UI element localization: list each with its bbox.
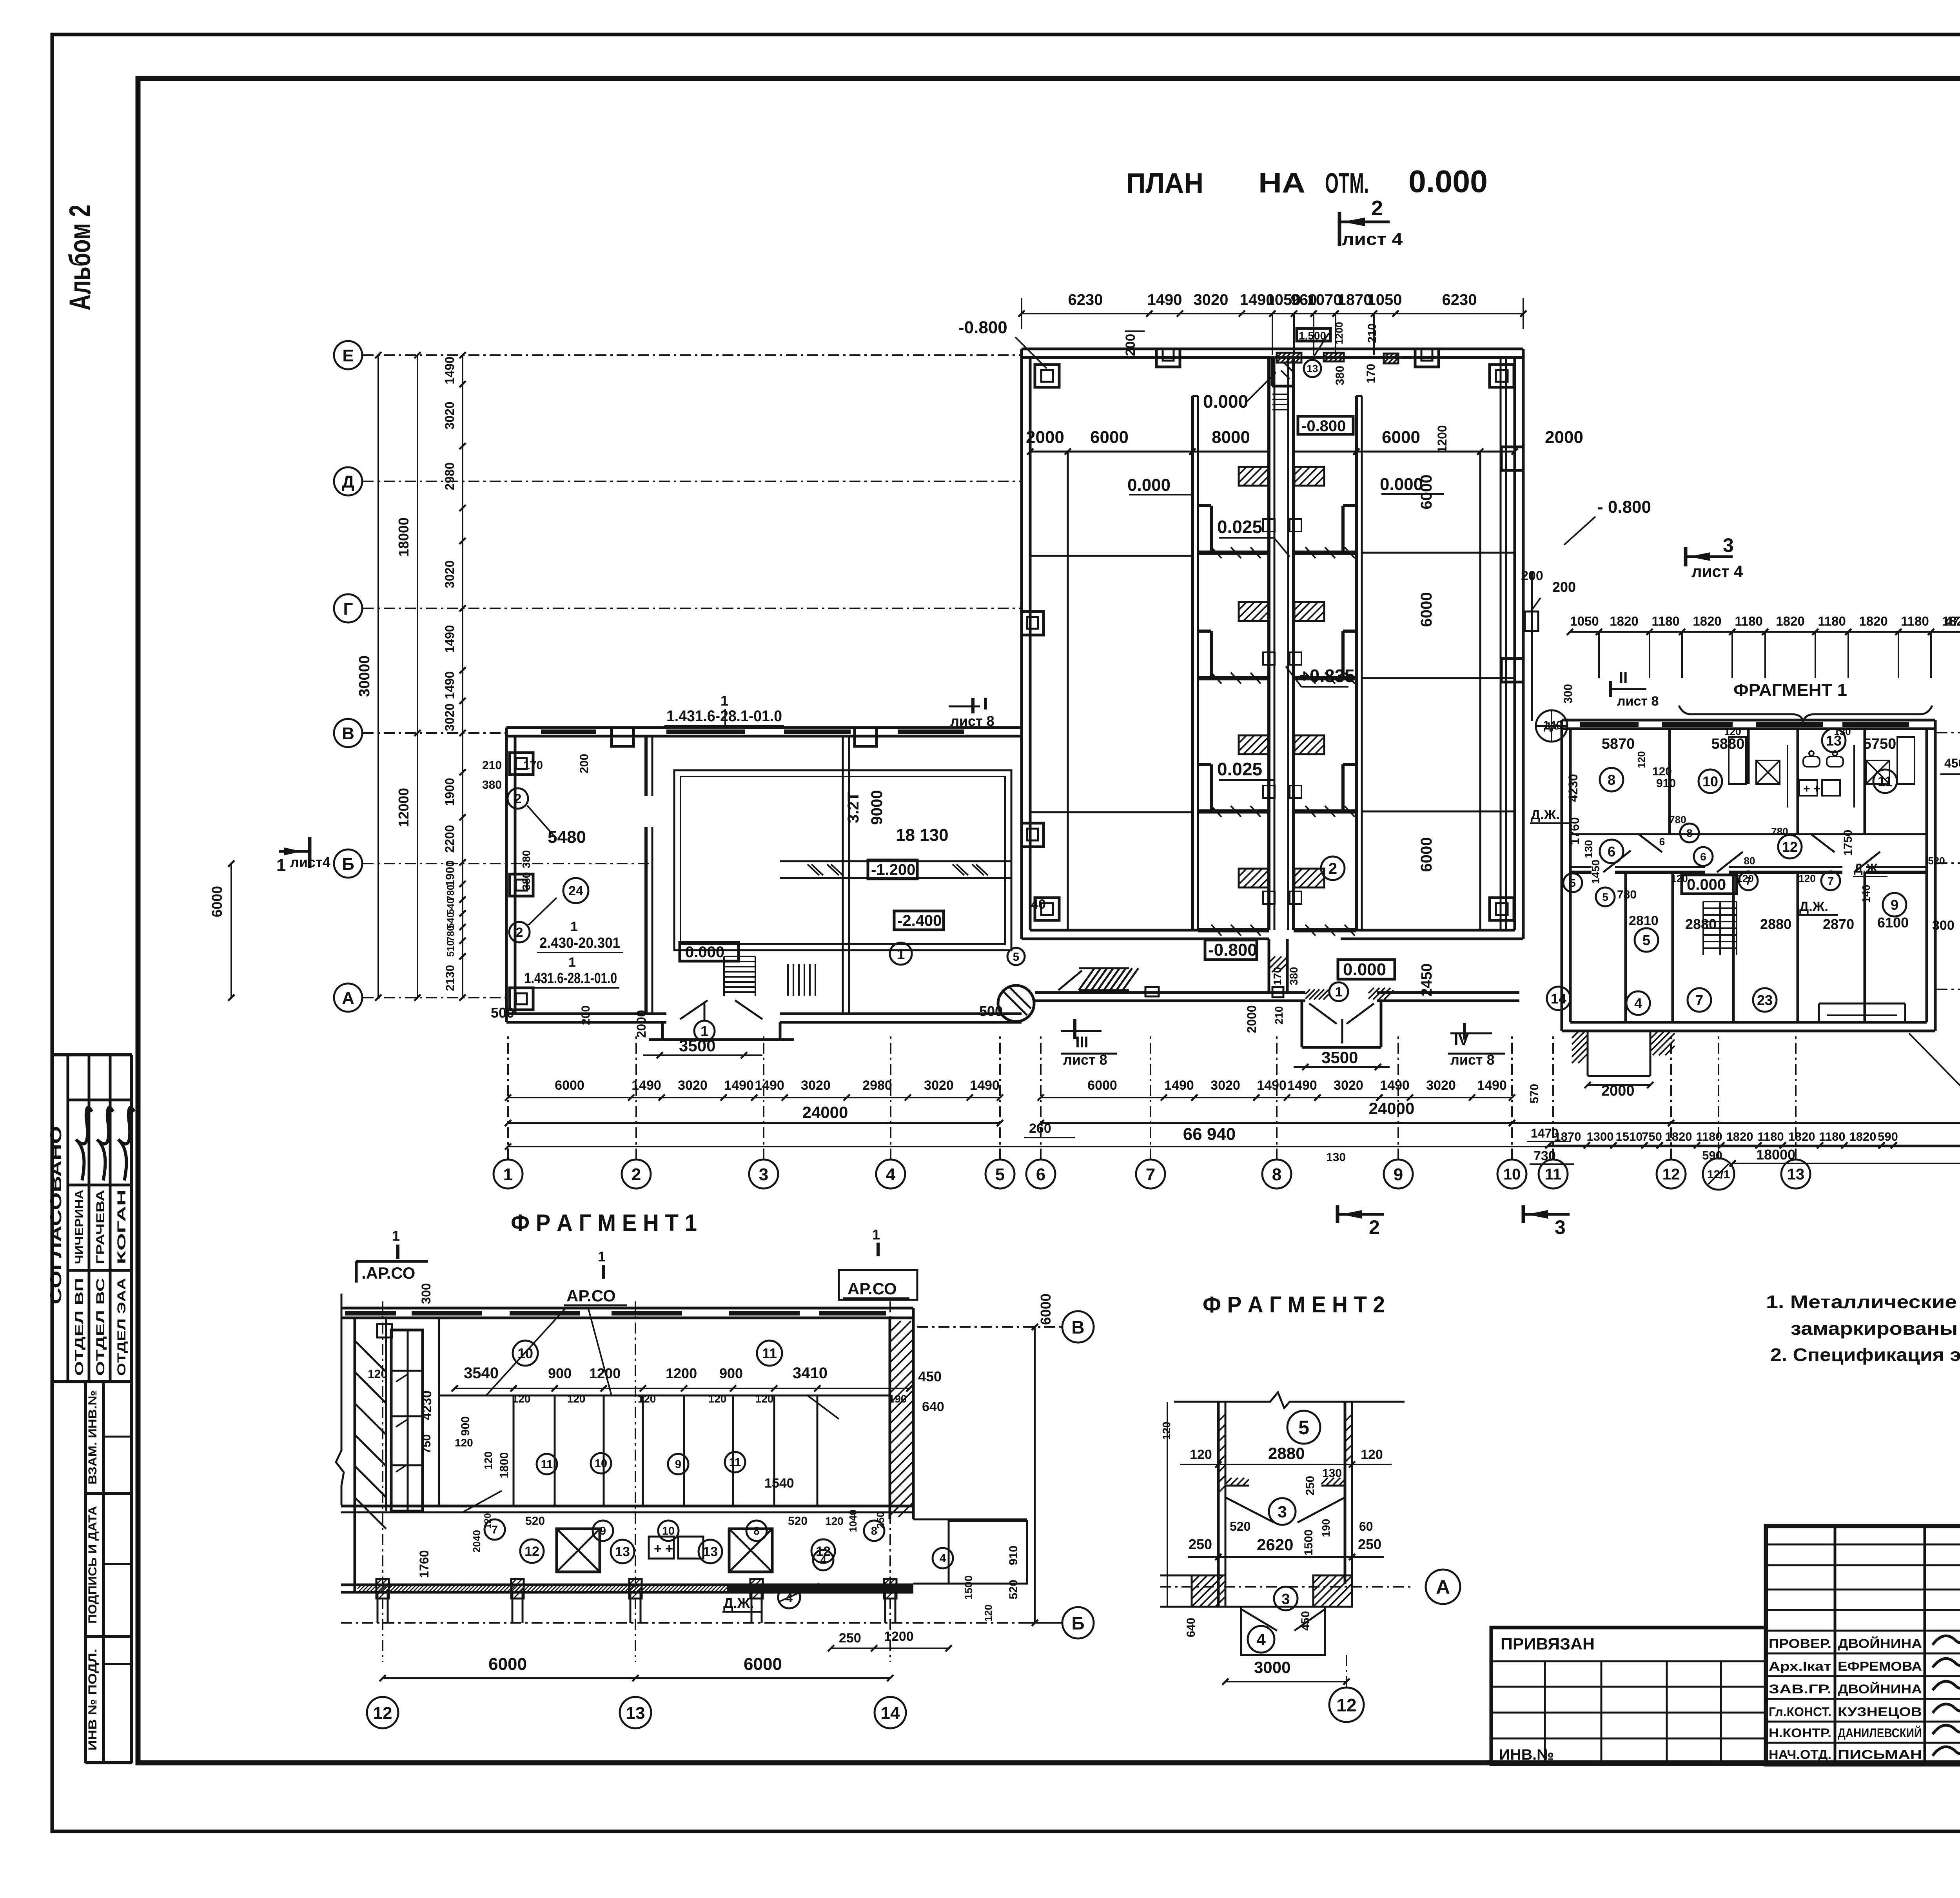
stairs hatch in link corridor xyxy=(1079,968,1094,990)
svg-text:лист 8: лист 8 xyxy=(1617,694,1659,709)
svg-text:2450: 2450 xyxy=(1419,964,1435,997)
svg-text:-0.800: -0.800 xyxy=(958,318,1007,337)
lower link corridor south wall xyxy=(1035,991,1305,994)
svg-text:5750: 5750 xyxy=(1863,736,1896,752)
left dim 30000 xyxy=(377,355,379,998)
central hall wall piers xyxy=(1035,365,1059,387)
svg-text:3020: 3020 xyxy=(924,1078,954,1093)
svg-text:6000: 6000 xyxy=(1418,475,1435,510)
svg-text:5: 5 xyxy=(995,1165,1005,1184)
svg-text:120: 120 xyxy=(1724,726,1741,737)
svg-text:1050: 1050 xyxy=(1570,614,1599,628)
svg-text:1: 1 xyxy=(872,1227,880,1243)
svg-text:1490: 1490 xyxy=(1477,1078,1507,1093)
svg-text:1200: 1200 xyxy=(666,1365,697,1381)
right wing outer walls xyxy=(1562,719,1935,722)
svg-text:+ +: + + xyxy=(1803,782,1820,795)
svg-text:24000: 24000 xyxy=(802,1103,848,1121)
section mark IV лист8 xyxy=(1463,1023,1466,1040)
svg-text:170: 170 xyxy=(1365,364,1377,383)
svg-text:470: 470 xyxy=(1945,614,1960,628)
svg-text:2810: 2810 xyxy=(1629,913,1659,928)
svg-text:НАЧ.ОТД.: НАЧ.ОТД. xyxy=(1769,1747,1831,1762)
svg-text:0.000: 0.000 xyxy=(1380,475,1423,494)
svg-text:2980: 2980 xyxy=(443,462,457,490)
svg-text:24: 24 xyxy=(568,884,583,898)
svg-text:2880: 2880 xyxy=(1760,916,1791,932)
svg-text:1180: 1180 xyxy=(1651,614,1680,628)
svg-text:5: 5 xyxy=(1570,877,1576,889)
svg-text:Е: Е xyxy=(342,346,354,365)
svg-text:250: 250 xyxy=(1358,1536,1381,1552)
svg-text:2: 2 xyxy=(516,925,523,940)
svg-text:120: 120 xyxy=(1635,751,1647,768)
svg-text:ДВОЙНИНА: ДВОЙНИНА xyxy=(1838,1682,1922,1696)
svg-text:1800: 1800 xyxy=(498,1452,511,1479)
svg-text:640: 640 xyxy=(922,1399,944,1414)
svg-text:6000: 6000 xyxy=(744,1655,782,1674)
svg-text:120: 120 xyxy=(982,1604,994,1621)
svg-text:6000: 6000 xyxy=(209,886,225,917)
svg-text:2: 2 xyxy=(632,1165,641,1184)
platform bands beside corridor xyxy=(1198,551,1269,555)
svg-text:КУЗНЕЦОВ: КУЗНЕЦОВ xyxy=(1838,1705,1922,1719)
svg-text:3: 3 xyxy=(1281,1591,1290,1608)
svg-text:8: 8 xyxy=(1272,1165,1281,1184)
title block small grid columns xyxy=(1834,1526,1837,1764)
svg-text:2980: 2980 xyxy=(862,1078,892,1093)
svg-text:1.431.6-28.1-01.0: 1.431.6-28.1-01.0 xyxy=(666,708,782,725)
svg-text:190: 190 xyxy=(1320,1519,1332,1537)
svg-text:лист 4: лист 4 xyxy=(1691,562,1743,581)
section mark 2 / лист 4 under title xyxy=(1338,212,1341,246)
svg-text:1820: 1820 xyxy=(1610,614,1638,628)
svg-text:250: 250 xyxy=(875,1512,886,1528)
svg-text:500: 500 xyxy=(491,1005,514,1021)
fragment1 interior walls xyxy=(438,1318,440,1505)
svg-text:4: 4 xyxy=(820,1554,826,1567)
svg-text:1: 1 xyxy=(897,946,905,963)
svg-text:18000: 18000 xyxy=(1756,1147,1795,1163)
svg-text:1180: 1180 xyxy=(1735,614,1763,628)
Д,е bubble xyxy=(1536,710,1567,742)
svg-text:2200: 2200 xyxy=(443,825,457,853)
svg-text:2000: 2000 xyxy=(1245,1005,1259,1033)
svg-text:1: 1 xyxy=(570,919,578,934)
corridor stub to south wall xyxy=(1268,939,1270,993)
svg-text:910: 910 xyxy=(1007,1546,1020,1565)
svg-text:5: 5 xyxy=(1298,1417,1309,1439)
svg-text:0.025: 0.025 xyxy=(1217,517,1262,537)
svg-text:3: 3 xyxy=(759,1165,768,1184)
svg-text:900: 900 xyxy=(548,1365,572,1381)
svg-text:4: 4 xyxy=(886,1165,896,1184)
svg-text:СОГЛАСОВАНО: СОГЛАСОВАНО xyxy=(47,1126,65,1305)
svg-text:14: 14 xyxy=(881,1704,900,1723)
interior dim row 2000/6000/8000/6000/2000 xyxy=(1030,451,1269,453)
svg-text:1180: 1180 xyxy=(1901,614,1929,628)
svg-text:ПИСЬМАН: ПИСЬМАН xyxy=(1838,1747,1922,1762)
svg-text:Д.Ж.: Д.Ж. xyxy=(1531,807,1560,822)
svg-text:13: 13 xyxy=(1787,1166,1805,1183)
svg-text:10: 10 xyxy=(595,1457,607,1470)
svg-text:1: 1 xyxy=(568,955,576,970)
right wing partitions upper xyxy=(1668,729,1671,834)
right wing partitions lower xyxy=(1624,872,1627,1022)
svg-text:120: 120 xyxy=(482,1452,494,1470)
svg-text:1760: 1760 xyxy=(417,1550,431,1578)
svg-text:1820: 1820 xyxy=(1849,1130,1877,1143)
svg-text:- 0.800: - 0.800 xyxy=(1597,497,1651,517)
svg-text:210: 210 xyxy=(482,759,502,772)
svg-text:120: 120 xyxy=(638,1393,656,1405)
svg-text:0.000: 0.000 xyxy=(1687,876,1726,893)
svg-text:9: 9 xyxy=(675,1458,681,1471)
svg-text:Д: Д xyxy=(342,472,354,492)
left dim 18000/12000 xyxy=(417,355,418,998)
svg-text:АР.СО: АР.СО xyxy=(566,1287,616,1305)
svg-text:7: 7 xyxy=(1695,992,1703,1008)
svg-text:3500: 3500 xyxy=(1321,1048,1358,1067)
svg-text:570: 570 xyxy=(1528,1084,1541,1103)
svg-text:5: 5 xyxy=(1642,932,1650,948)
top dimension string of central building xyxy=(1022,313,1523,314)
svg-text:Арх.Iкат: Арх.Iкат xyxy=(1769,1659,1831,1673)
svg-text:60: 60 xyxy=(1359,1519,1373,1533)
svg-text:10: 10 xyxy=(1503,1166,1521,1183)
svg-text:190: 190 xyxy=(889,1393,907,1405)
svg-text:520: 520 xyxy=(788,1515,808,1528)
svg-text:120: 120 xyxy=(825,1515,844,1527)
svg-text:1: 1 xyxy=(276,856,286,875)
svg-text:120: 120 xyxy=(567,1393,586,1405)
svg-text:1200: 1200 xyxy=(1333,322,1345,345)
svg-text:0.000: 0.000 xyxy=(685,944,724,961)
basement stair bottom center of hall xyxy=(787,964,789,996)
svg-text:6000: 6000 xyxy=(1038,1294,1054,1325)
fragment1 room circles xyxy=(513,1341,538,1366)
svg-text:1490: 1490 xyxy=(1164,1078,1194,1093)
svg-text:520: 520 xyxy=(1007,1580,1020,1599)
title block privyazan annex xyxy=(1491,1628,1766,1764)
svg-text:3020: 3020 xyxy=(1426,1078,1456,1093)
svg-text:6000: 6000 xyxy=(1090,428,1129,447)
svg-text:18 130: 18 130 xyxy=(896,826,949,845)
fragment1 top wall xyxy=(341,1307,913,1310)
svg-text:-2.400: -2.400 xyxy=(897,912,942,929)
svg-text:1: 1 xyxy=(503,1165,513,1184)
svg-text:5: 5 xyxy=(1013,951,1020,964)
svg-text:120: 120 xyxy=(483,1513,493,1529)
svg-text:6: 6 xyxy=(1700,851,1706,863)
section mark 3 bottom xyxy=(1522,1205,1525,1223)
svg-text:Гл.КОНСТ.: Гл.КОНСТ. xyxy=(1769,1705,1831,1719)
svg-text:лист4: лист4 xyxy=(290,854,330,870)
svg-text:7: 7 xyxy=(1146,1165,1155,1184)
air intake chamber bottom right xyxy=(1818,1003,1820,1022)
svg-text:1040: 1040 xyxy=(847,1510,859,1532)
title block outer xyxy=(1766,1526,1960,1764)
svg-text:2: 2 xyxy=(1369,1216,1380,1238)
svg-text:380: 380 xyxy=(520,872,532,891)
svg-text:5: 5 xyxy=(1602,891,1608,903)
svg-text:1490: 1490 xyxy=(970,1078,1000,1093)
svg-text:ОТДЕЛ ВП: ОТДЕЛ ВП xyxy=(73,1278,86,1376)
svg-text:ДАНИЛЕВСКИЙ: ДАНИЛЕВСКИЙ xyxy=(1838,1726,1922,1740)
svg-text:5870: 5870 xyxy=(1602,736,1635,752)
svg-text:6230: 6230 xyxy=(1442,291,1477,308)
svg-text:3.2Т: 3.2Т xyxy=(845,792,862,823)
fragment2 A axis xyxy=(1160,1586,1411,1588)
fragment2 lower door funnel xyxy=(1274,1587,1298,1610)
svg-text:120: 120 xyxy=(368,1368,387,1381)
svg-text:1300: 1300 xyxy=(1587,1130,1614,1143)
svg-text:ПРОВЕР.: ПРОВЕР. xyxy=(1769,1637,1831,1651)
svg-text:8: 8 xyxy=(1608,772,1615,788)
left wing window piers top wall xyxy=(541,729,596,734)
right wing stairs xyxy=(1703,901,1737,902)
svg-text:3540: 3540 xyxy=(464,1365,499,1382)
svg-text:120: 120 xyxy=(455,1437,473,1449)
right wing corridor walls xyxy=(1570,833,1927,835)
corridor walls (central shaft) xyxy=(1267,357,1270,930)
svg-text:250: 250 xyxy=(1189,1536,1212,1552)
svg-text:0.000: 0.000 xyxy=(1127,475,1171,495)
left wing outer walls xyxy=(506,726,1022,729)
right wing room circles xyxy=(1600,768,1623,791)
svg-text:1180: 1180 xyxy=(1819,1130,1845,1143)
svg-text:Ф Р А Г М Е Н Т 1: Ф Р А Г М Е Н Т 1 xyxy=(511,1210,697,1236)
bottom dim row3 66940 xyxy=(508,1146,1960,1147)
svg-text:1490: 1490 xyxy=(443,625,457,653)
svg-text:1450: 1450 xyxy=(1590,860,1602,884)
svg-text:4: 4 xyxy=(1634,995,1642,1011)
svg-text:0.000: 0.000 xyxy=(1408,164,1488,199)
svg-text:1820: 1820 xyxy=(1726,1130,1753,1143)
svg-text:300: 300 xyxy=(1562,684,1575,704)
svg-text:12: 12 xyxy=(373,1704,392,1723)
svg-text:В: В xyxy=(342,724,354,743)
svg-text:750: 750 xyxy=(1642,1130,1662,1143)
svg-text:1: 1 xyxy=(720,693,728,709)
svg-text:II: II xyxy=(1619,669,1628,686)
svg-text:1050: 1050 xyxy=(1367,291,1402,308)
svg-text:200: 200 xyxy=(1521,568,1543,583)
fragment1 side walls xyxy=(336,1294,344,1505)
svg-text:1490: 1490 xyxy=(1257,1078,1287,1093)
svg-text:1820: 1820 xyxy=(1693,614,1721,628)
svg-text:ОТДЕЛ ВС: ОТДЕЛ ВС xyxy=(94,1278,107,1376)
svg-text:ПРИВЯЗАН: ПРИВЯЗАН xyxy=(1501,1635,1595,1653)
svg-text:14: 14 xyxy=(1551,991,1566,1007)
svg-text:140: 140 xyxy=(1860,885,1872,903)
fragment2 room 5 xyxy=(1287,1411,1320,1444)
svg-text:5880: 5880 xyxy=(1711,736,1745,752)
svg-text:450: 450 xyxy=(1944,756,1960,770)
left vertical dim string (pier dims) xyxy=(462,355,463,998)
svg-text:0.000: 0.000 xyxy=(1203,391,1248,412)
svg-text:540: 540 xyxy=(445,898,456,915)
svg-text:АР.СО: АР.СО xyxy=(848,1279,897,1298)
section mark 3/лист4 top right xyxy=(1684,547,1688,566)
svg-text:1820: 1820 xyxy=(1859,614,1887,628)
svg-text:Г: Г xyxy=(343,599,353,619)
svg-text:ЗАВ.ГР.: ЗАВ.ГР. xyxy=(1769,1682,1831,1696)
svg-text:ЕФРЕМОВА: ЕФРЕМОВА xyxy=(1838,1659,1922,1673)
svg-text:ОТДЕЛ ЭАА: ОТДЕЛ ЭАА xyxy=(115,1278,128,1376)
svg-text:210: 210 xyxy=(1273,1006,1285,1025)
svg-text:8: 8 xyxy=(753,1525,760,1537)
fragment2 walls xyxy=(1217,1402,1220,1607)
svg-text:2: 2 xyxy=(1328,860,1337,877)
svg-text:2880: 2880 xyxy=(1268,1444,1305,1463)
svg-text:11: 11 xyxy=(729,1456,741,1469)
svg-text:3: 3 xyxy=(1723,534,1734,556)
fragment1 left tank xyxy=(391,1330,423,1511)
svg-text:3: 3 xyxy=(1555,1216,1566,1238)
svg-text:10: 10 xyxy=(662,1525,675,1537)
svg-text:6000: 6000 xyxy=(1087,1078,1117,1093)
svg-text:Д.Ж.: Д.Ж. xyxy=(1799,899,1828,914)
svg-text:4: 4 xyxy=(940,1552,946,1565)
left wing inner dividing wall xyxy=(644,736,648,796)
svg-text:5480: 5480 xyxy=(548,827,586,847)
svg-text:НА: НА xyxy=(1258,167,1305,199)
svg-text:1760: 1760 xyxy=(1568,817,1582,845)
svg-text:120: 120 xyxy=(1737,873,1753,884)
svg-text:12: 12 xyxy=(524,1544,539,1559)
section mark I лист8 xyxy=(971,698,975,713)
svg-text:13: 13 xyxy=(626,1704,645,1723)
fragment2 door funnel xyxy=(1269,1498,1296,1525)
svg-text:-0.800: -0.800 xyxy=(1208,940,1257,960)
svg-text:2880: 2880 xyxy=(1685,916,1717,932)
svg-text:6: 6 xyxy=(1036,1165,1045,1184)
svg-text:ВЗАМ. ИНВ.№: ВЗАМ. ИНВ.№ xyxy=(86,1390,99,1484)
svg-text:13: 13 xyxy=(1307,363,1318,374)
svg-text:13: 13 xyxy=(615,1544,630,1559)
fragment1 column posts on lower wall xyxy=(376,1579,389,1599)
svg-text:12: 12 xyxy=(1782,839,1798,855)
svg-text:1900: 1900 xyxy=(444,860,457,887)
svg-text:300: 300 xyxy=(1932,918,1955,933)
svg-text:2620: 2620 xyxy=(1257,1535,1293,1554)
detail circle at left wing corner xyxy=(998,985,1034,1022)
svg-text:300: 300 xyxy=(419,1283,433,1304)
svg-text:1490: 1490 xyxy=(443,671,457,699)
fragment2 axis 12 stub xyxy=(1346,1655,1347,1689)
svg-text:лист 8: лист 8 xyxy=(950,713,995,729)
svg-text:1200: 1200 xyxy=(589,1365,621,1381)
svg-text:I: I xyxy=(983,694,988,713)
svg-text:1540: 1540 xyxy=(764,1476,794,1491)
svg-text:6: 6 xyxy=(1608,844,1615,860)
svg-text:6100: 6100 xyxy=(1877,915,1909,931)
svg-text:ПЛАН: ПЛАН xyxy=(1126,168,1203,199)
svg-text:-0.800: -0.800 xyxy=(1301,417,1346,435)
svg-text:Б: Б xyxy=(342,855,354,874)
svg-text:2040: 2040 xyxy=(471,1530,483,1553)
hall stairs xyxy=(724,956,755,957)
svg-text:450: 450 xyxy=(1299,1611,1312,1631)
svg-text:250: 250 xyxy=(839,1631,861,1646)
svg-text:1900: 1900 xyxy=(443,778,457,806)
svg-text:1180: 1180 xyxy=(1696,1130,1722,1143)
svg-text:1: 1 xyxy=(701,1023,708,1039)
tank row lines xyxy=(1030,555,1192,557)
svg-text:9: 9 xyxy=(1891,897,1898,913)
left wing entrance porch xyxy=(661,1022,664,1040)
svg-text:4230: 4230 xyxy=(419,1390,434,1420)
svg-text:1: 1 xyxy=(598,1248,606,1265)
svg-text:910: 910 xyxy=(1656,777,1676,790)
svg-text:590: 590 xyxy=(1702,1149,1722,1162)
svg-text:3000: 3000 xyxy=(1254,1658,1290,1677)
svg-text:3020: 3020 xyxy=(678,1078,708,1093)
svg-text:200: 200 xyxy=(1552,579,1576,595)
svg-text:10: 10 xyxy=(1702,773,1718,789)
svg-text:3020: 3020 xyxy=(443,401,457,429)
svg-text:120: 120 xyxy=(1798,873,1815,884)
svg-text:730: 730 xyxy=(1534,1149,1556,1163)
svg-text:КОГАН: КОГАН xyxy=(115,1190,128,1264)
toilet fixtures xyxy=(1756,760,1780,784)
svg-text:170: 170 xyxy=(523,759,543,772)
svg-text:11: 11 xyxy=(1545,1166,1561,1183)
svg-text:.АР.СО: .АР.СО xyxy=(361,1264,415,1282)
svg-text:23: 23 xyxy=(1757,992,1773,1008)
svg-text:1070: 1070 xyxy=(1307,291,1342,308)
svg-text:200: 200 xyxy=(578,754,591,773)
svg-text:А: А xyxy=(1436,1576,1450,1598)
svg-text:30000: 30000 xyxy=(356,655,373,697)
svg-text:450: 450 xyxy=(918,1368,942,1384)
section mark II лист8 xyxy=(1609,681,1612,697)
svg-text:66 940: 66 940 xyxy=(1183,1125,1236,1144)
svg-text:1470: 1470 xyxy=(1531,1126,1559,1140)
svg-text:1820: 1820 xyxy=(1788,1130,1815,1143)
svg-text:1200: 1200 xyxy=(1435,425,1449,453)
svg-text:120: 120 xyxy=(1160,1422,1172,1440)
svg-text:ИНВ № ПОДЛ.: ИНВ № ПОДЛ. xyxy=(86,1649,99,1751)
right wing top wall windows xyxy=(1580,722,1639,727)
svg-text:III: III xyxy=(1075,1034,1088,1051)
svg-text:лист 4: лист 4 xyxy=(1342,230,1403,249)
svg-text:3020: 3020 xyxy=(1334,1078,1363,1093)
svg-text:+ +: + + xyxy=(654,1541,673,1556)
svg-text:3020: 3020 xyxy=(801,1078,831,1093)
fragment1 X-shafts xyxy=(557,1529,600,1572)
svg-text:1200: 1200 xyxy=(884,1629,914,1644)
svg-text:520: 520 xyxy=(1928,855,1945,867)
svg-text:140: 140 xyxy=(1543,719,1563,732)
right wing bottom porch xyxy=(1587,1031,1589,1076)
svg-text:130: 130 xyxy=(1326,1151,1346,1164)
fragment2 vertical border dims xyxy=(1167,1402,1168,1607)
svg-text:2. Спецификация элементов за: 2. Спецификация элементов заполнения про… xyxy=(1770,1345,1960,1365)
svg-text:1490: 1490 xyxy=(1147,291,1182,308)
svg-text:8: 8 xyxy=(1686,827,1693,839)
fragment2 break line top xyxy=(1174,1392,1405,1408)
svg-text:3020: 3020 xyxy=(443,560,457,588)
fragment2 pit xyxy=(1241,1607,1325,1655)
svg-text:2130: 2130 xyxy=(444,965,457,991)
svg-text:120: 120 xyxy=(755,1393,774,1405)
L-walls at platforms xyxy=(1198,504,1211,507)
section mark III лист8 xyxy=(1073,1019,1076,1039)
svg-text:380: 380 xyxy=(482,778,502,791)
svg-text:1500: 1500 xyxy=(962,1575,975,1600)
